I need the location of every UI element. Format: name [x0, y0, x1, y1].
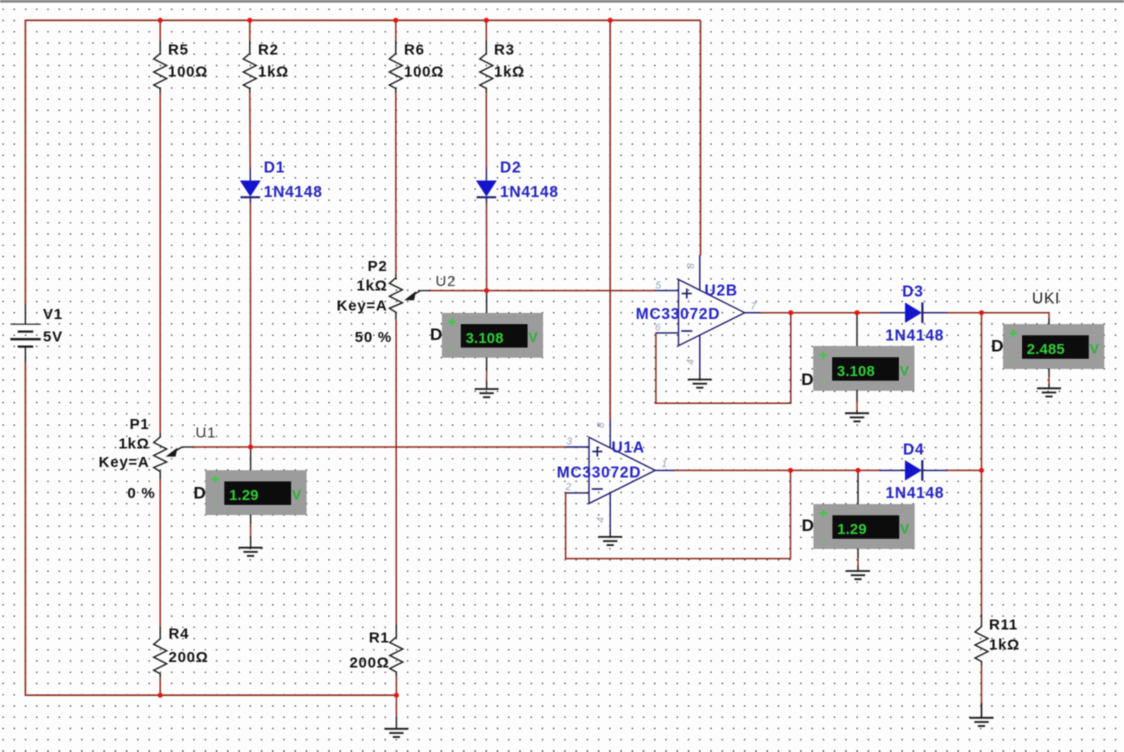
- ground under VM4: [846, 549, 870, 580]
- svg-text:1kΩ: 1kΩ: [494, 63, 525, 80]
- wire R11 to ground: [981, 666, 983, 718]
- svg-text:1kΩ: 1kΩ: [119, 436, 150, 453]
- label MC33072D U2B: [636, 306, 720, 323]
- svg-text:Key=A: Key=A: [337, 298, 388, 315]
- voltmeter VM2 3.108: [814, 346, 915, 390]
- label 1N4148 D2: [500, 184, 559, 201]
- svg-text:1.29: 1.29: [837, 522, 867, 538]
- pin 8 lead U1A: [609, 420, 611, 448]
- pin 3 lead U1A: [566, 446, 589, 448]
- wire U2B feedback loop: [656, 313, 791, 404]
- label 1kΩ P1: [119, 436, 150, 453]
- label 1kΩ R3: [494, 63, 525, 80]
- label 100Ω R5: [168, 63, 208, 80]
- label 1kΩ R2: [258, 63, 289, 80]
- junction (249.8,20.3): [247, 18, 252, 23]
- op-amp U2B plus: [682, 289, 692, 299]
- label V1: [43, 306, 63, 323]
- junction (790.5,470.4): [788, 468, 793, 473]
- resistor R4: [154, 626, 167, 678]
- svg-text:4: 4: [685, 358, 696, 364]
- svg-text:P2: P2: [368, 258, 388, 275]
- label R5: [168, 42, 189, 59]
- pin 2 label U1A: [565, 482, 572, 493]
- wire node U1 to U1A pin 3: [192, 446, 566, 448]
- svg-text:3.108: 3.108: [466, 331, 504, 347]
- svg-text:50 %: 50 %: [355, 329, 392, 346]
- svg-text:D: D: [430, 325, 443, 344]
- diode D1: [240, 181, 260, 197]
- voltmeter lead node U2 to VM1: [486, 291, 488, 314]
- diode D3 anode lead: [880, 312, 905, 314]
- voltmeter lead to VM2: [856, 313, 858, 347]
- label D4: [903, 441, 924, 458]
- wire R6 top lead: [395, 20, 397, 41]
- wire left rail lower: [24, 363, 26, 696]
- junction (395.8,20.3): [393, 18, 398, 23]
- svg-text:D: D: [991, 337, 1004, 356]
- diode D1 anode lead: [249, 168, 251, 181]
- label D2: [500, 159, 521, 176]
- svg-text:200Ω: 200Ω: [169, 649, 209, 666]
- svg-text:1: 1: [662, 459, 668, 470]
- voltmeter VM1 3.108: [442, 313, 543, 357]
- diode D3: [905, 302, 922, 323]
- junction (858,470.4): [856, 468, 861, 473]
- svg-text:V1: V1: [43, 306, 63, 323]
- wire R3 top lead: [485, 20, 487, 41]
- op-amp U1A plus: [592, 447, 602, 457]
- voltmeter VM5 1.29: [206, 471, 307, 515]
- label Key=A P1: [99, 454, 150, 471]
- pin 1 label U1A: [662, 459, 668, 470]
- svg-text:6: 6: [655, 322, 661, 333]
- label R11: [989, 617, 1018, 634]
- wire right column UKI node: [981, 313, 983, 614]
- svg-text:0 %: 0 %: [127, 485, 155, 502]
- resistor R5: [154, 41, 167, 93]
- diode D2 anode lead: [485, 168, 487, 181]
- wire P2 wiper elbow: [420, 290, 430, 292]
- node U1: [196, 425, 217, 442]
- svg-text:1N4148: 1N4148: [886, 485, 945, 502]
- label R3: [494, 42, 515, 59]
- svg-text:7: 7: [751, 302, 757, 313]
- diode D4 anode lead: [880, 469, 905, 471]
- pin 7 lead U2B: [745, 312, 761, 314]
- pin 4 label U2B: [685, 358, 696, 364]
- junction (981.5,470.4): [979, 468, 984, 473]
- voltmeter VM4 1.29: [814, 504, 915, 548]
- label P1: [130, 416, 150, 433]
- pin 4 label U1A: [596, 516, 607, 522]
- svg-text:U2B: U2B: [705, 282, 738, 299]
- diode D1 cathode lead: [249, 197, 251, 203]
- label 1kΩ P2: [357, 278, 388, 295]
- svg-text:D: D: [801, 370, 814, 389]
- svg-text:3.108: 3.108: [837, 364, 875, 380]
- label P2: [368, 258, 388, 275]
- label 50 % P2: [355, 329, 392, 346]
- wire R4 to bottom rail: [159, 678, 161, 695]
- label U2B: [705, 282, 738, 299]
- label 1N4148 D3: [885, 327, 944, 344]
- voltmeter lead to VM3: [1048, 318, 1050, 325]
- label D VM1: [430, 325, 443, 344]
- svg-text:1kΩ: 1kΩ: [989, 637, 1020, 654]
- svg-text:MC33072D: MC33072D: [636, 306, 720, 323]
- diode D4 cathode lead: [923, 469, 947, 471]
- pin 8 label U2B: [686, 263, 697, 269]
- svg-text:D: D: [802, 516, 815, 535]
- ground under VM1: [475, 357, 499, 397]
- svg-text:U1: U1: [196, 425, 217, 442]
- svg-text:5: 5: [656, 280, 662, 291]
- junction (486.3,20.3): [484, 18, 489, 23]
- label D VM3: [991, 337, 1004, 356]
- resistor R3: [480, 41, 493, 93]
- svg-text:100Ω: 100Ω: [168, 63, 208, 80]
- pin 4 lead U1A: [609, 493, 611, 531]
- node UKI: [1032, 291, 1060, 308]
- label D VM5: [193, 483, 206, 502]
- wire left rail upper: [24, 20, 26, 305]
- pin 2 lead U1A: [566, 492, 589, 494]
- svg-text:3: 3: [567, 437, 573, 448]
- junction (981.5,312.7): [979, 310, 984, 315]
- potentiometer P1: [154, 433, 182, 479]
- label U1A: [612, 440, 645, 457]
- junction (486.6,290.6): [484, 288, 489, 293]
- op-amp U1A: [589, 437, 655, 503]
- label 1N4148 D4: [886, 485, 945, 502]
- junction (857,312.7): [855, 310, 860, 315]
- ground under U2B pin 4: [688, 374, 712, 388]
- node U2: [436, 273, 457, 290]
- label R2: [258, 42, 279, 59]
- ground under VM2: [845, 390, 869, 421]
- wire V+ drop to U2B pin 8: [700, 20, 702, 255]
- wire P1 to R4: [159, 479, 161, 626]
- ground under R1 bottom rail: [384, 695, 408, 737]
- wire U1A output: [674, 469, 881, 471]
- svg-text:V: V: [900, 520, 910, 536]
- wire R3 to D2: [485, 93, 487, 169]
- wire node U2 to U2B pin 5: [429, 290, 656, 292]
- svg-text:1N4148: 1N4148: [885, 327, 944, 344]
- svg-text:D4: D4: [903, 441, 924, 458]
- ground under VM3: [1037, 369, 1061, 397]
- label R6: [404, 42, 425, 59]
- label 200Ω R4: [169, 649, 209, 666]
- op-amp U2B: [679, 280, 745, 346]
- pin 5 lead U2B: [656, 290, 679, 292]
- junction (160.2,695.2): [158, 693, 163, 698]
- svg-text:U2: U2: [436, 273, 457, 290]
- label 1N4148 D1: [264, 184, 323, 201]
- svg-text:4: 4: [596, 516, 607, 522]
- svg-text:UKI: UKI: [1032, 291, 1060, 308]
- wire R2 to D1: [249, 93, 251, 169]
- svg-text:8: 8: [686, 263, 697, 269]
- pin 8 lead U2B: [699, 255, 701, 290]
- voltmeter lead node U1 to VM5: [250, 447, 252, 471]
- resistor R1: [390, 625, 403, 677]
- pin 3 label U1A: [567, 437, 573, 448]
- svg-text:R5: R5: [168, 42, 189, 59]
- label D VM4: [802, 516, 815, 535]
- svg-text:100Ω: 100Ω: [404, 63, 444, 80]
- svg-text:1N4148: 1N4148: [500, 184, 559, 201]
- pin 6 lead U2B: [656, 332, 679, 334]
- svg-text:R2: R2: [258, 42, 279, 59]
- pin 1 lead U1A: [655, 469, 674, 471]
- label D3: [902, 283, 923, 300]
- label 5V: [43, 329, 63, 346]
- svg-text:V: V: [528, 329, 538, 345]
- ground under U1A pin 4: [598, 531, 622, 545]
- op-amp U1A minus: [592, 488, 603, 490]
- label R1: [369, 630, 390, 647]
- diode D2 cathode lead: [486, 197, 488, 203]
- resistor R6: [389, 41, 402, 93]
- wire P1 wiper elbow: [182, 446, 193, 448]
- label 0 % P1: [127, 485, 155, 502]
- wire bottom rail: [25, 694, 396, 696]
- svg-text:MC33072D: MC33072D: [557, 464, 641, 481]
- svg-text:R11: R11: [989, 617, 1018, 634]
- wire top power rail: [25, 19, 700, 21]
- voltmeter lead to VM4: [857, 470, 859, 504]
- pin 7 label U2B: [751, 302, 757, 313]
- wire D4 cathode to right column: [946, 469, 982, 471]
- resistor R11: [975, 614, 988, 666]
- svg-text:R1: R1: [369, 630, 390, 647]
- svg-text:D1: D1: [264, 159, 285, 176]
- junction (790.8,312.7): [788, 310, 793, 315]
- ground under R11: [970, 703, 994, 726]
- label D1: [264, 159, 285, 176]
- svg-text:V: V: [292, 487, 302, 503]
- battery V1 5V: [10, 304, 40, 363]
- resistor R2: [243, 41, 256, 93]
- svg-text:D2: D2: [500, 159, 521, 176]
- svg-text:R6: R6: [404, 42, 425, 59]
- svg-text:1.29: 1.29: [229, 488, 259, 504]
- label 100Ω R6: [404, 63, 444, 80]
- wire R5 top lead: [159, 20, 161, 41]
- label MC33072D U1A: [557, 464, 641, 481]
- wire U2B output: [760, 312, 881, 314]
- wire U1A feedback loop: [566, 470, 791, 558]
- svg-text:D3: D3: [902, 283, 923, 300]
- label Key=A P2: [337, 298, 388, 315]
- pin 8 label U1A: [596, 422, 607, 428]
- wire D2 to node U2: [486, 203, 488, 291]
- wire V+ drop to U1A pin 8: [609, 20, 611, 419]
- junction (396.4,695.2): [394, 693, 399, 698]
- pin 4 lead U2B: [699, 335, 701, 373]
- label 200Ω R1: [349, 655, 389, 672]
- svg-text:Key=A: Key=A: [99, 454, 150, 471]
- svg-text:1N4148: 1N4148: [264, 184, 323, 201]
- label R4: [169, 626, 190, 643]
- svg-text:8: 8: [596, 422, 607, 428]
- wire R2 top lead: [249, 20, 251, 41]
- label D VM2: [801, 370, 814, 389]
- svg-text:R3: R3: [494, 42, 515, 59]
- svg-text:2: 2: [565, 482, 572, 493]
- wire D1 to node U1: [249, 203, 251, 447]
- junction (160.2,20.3): [158, 18, 163, 23]
- diode D3 cathode lead: [924, 312, 948, 314]
- svg-text:P1: P1: [130, 416, 150, 433]
- op-amp U2B minus: [681, 330, 692, 332]
- wire R1 to bottom rail: [395, 676, 397, 695]
- wire D3 cathode to UKI corner: [946, 313, 1049, 318]
- diode D4: [905, 460, 922, 481]
- svg-text:2.485: 2.485: [1027, 342, 1065, 358]
- ground under VM5: [239, 515, 263, 556]
- wire R5 to P1: [159, 93, 161, 434]
- junction (250.6,447): [248, 445, 253, 450]
- svg-text:V: V: [900, 362, 910, 378]
- wire R6 to P2: [395, 93, 397, 274]
- diode D2: [476, 181, 496, 197]
- junction (610.2,20.3): [608, 18, 613, 23]
- pin 5 label U2B: [656, 280, 662, 291]
- svg-text:200Ω: 200Ω: [349, 655, 389, 672]
- svg-text:R4: R4: [169, 626, 190, 643]
- svg-text:U1A: U1A: [612, 440, 645, 457]
- svg-text:1kΩ: 1kΩ: [258, 63, 289, 80]
- wire P2 to R1: [395, 320, 397, 625]
- svg-text:D: D: [193, 483, 206, 502]
- svg-text:5V: 5V: [43, 329, 63, 346]
- label 1kΩ R11: [989, 637, 1020, 654]
- svg-text:V: V: [1090, 340, 1100, 356]
- svg-text:1kΩ: 1kΩ: [357, 278, 388, 295]
- pin 6 label U2B: [655, 322, 661, 333]
- voltmeter VM3 2.485: [1003, 324, 1104, 368]
- potentiometer P2: [389, 274, 420, 320]
